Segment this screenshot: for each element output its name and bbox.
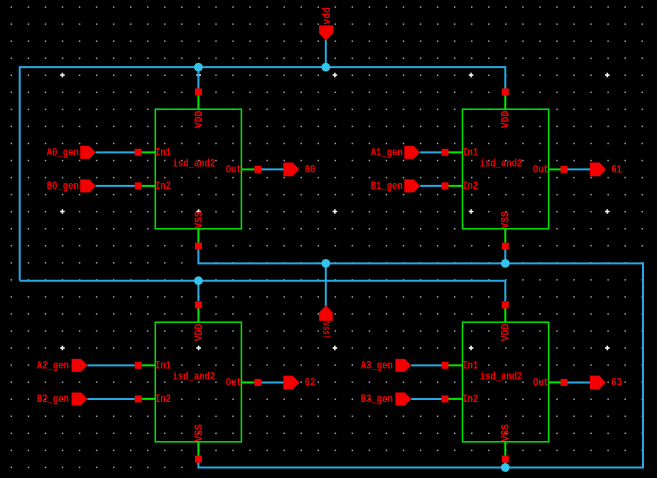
wire U3 Out to 62: [261, 382, 283, 384]
U3 pin In2: [135, 395, 142, 402]
U1 pin In2: [135, 182, 142, 189]
op-amp U4 isd_and2 instance body: [449, 308, 561, 455]
svg-text:60: 60: [305, 164, 316, 176]
wire A3_gen to U4 In1: [411, 364, 442, 366]
U1 pin VSS: [195, 243, 202, 250]
svg-text:isd_and2: isd_and2: [480, 371, 523, 383]
wire vss loop: [198, 249, 643, 467]
U4 pin In1: [442, 362, 449, 369]
svg-text:B0_gen: B0_gen: [47, 181, 79, 193]
wire A1_gen to U2 In1: [420, 151, 442, 153]
op-amp U3 isd_and2 instance body: [142, 308, 255, 455]
svg-text:In1: In1: [155, 148, 171, 160]
wire vdd top loop: [20, 67, 506, 281]
vss pentagon: [319, 306, 333, 321]
wire U1 Out to 60: [261, 168, 283, 170]
svg-text:In2: In2: [155, 394, 171, 406]
port B0_gen: [47, 179, 96, 193]
junction vdd top left: [194, 63, 203, 72]
U2 pin VSS: [502, 243, 509, 250]
svg-text:vdd: vdd: [322, 7, 334, 25]
svg-text:A0_gen: A0_gen: [47, 147, 79, 159]
svg-text:VSS: VSS: [194, 424, 206, 442]
wire vdd lower horizontal: [20, 281, 506, 302]
svg-text:In2: In2: [462, 181, 478, 193]
svg-text:In1: In1: [462, 361, 478, 373]
U4 pin VDD: [502, 301, 509, 308]
wire B3_gen to U4 In2: [411, 398, 442, 400]
junction vdd lower left: [194, 276, 203, 285]
svg-text:A2_gen: A2_gen: [37, 360, 69, 372]
power vdd supply symbol: [319, 7, 334, 41]
U3 pin VDD: [195, 301, 202, 308]
svg-text:In1: In1: [462, 148, 478, 160]
U4 pin VSS: [502, 456, 509, 463]
U1 pin VDD: [195, 88, 202, 95]
port 62: [283, 376, 315, 390]
port B1_gen: [371, 179, 420, 193]
U2 pin In2: [442, 182, 449, 189]
svg-text:62: 62: [305, 378, 316, 390]
svg-text:Out: Out: [226, 378, 242, 390]
svg-text:VDD: VDD: [501, 323, 513, 341]
ground vss supply symbol: [319, 306, 333, 339]
svg-text:VDD: VDD: [194, 110, 206, 128]
wire B0_gen to U1 In2: [96, 185, 135, 187]
port B2_gen: [37, 393, 88, 407]
wire U2 Out to 61: [567, 168, 590, 170]
svg-text:B3_gen: B3_gen: [361, 394, 393, 406]
wire B2_gen to U3 In2: [87, 398, 134, 400]
wire vss from U2: [504, 249, 506, 263]
svg-text:VSS: VSS: [194, 211, 206, 229]
U4 pin Out: [561, 379, 568, 386]
junction vss supply: [321, 259, 330, 268]
svg-text:A3_gen: A3_gen: [361, 360, 393, 372]
U3 pin Out: [254, 379, 261, 386]
wire vdd drop to U1: [197, 67, 199, 89]
svg-text:VDD: VDD: [194, 323, 206, 341]
svg-text:VSS: VSS: [501, 211, 513, 229]
wire A2_gen to U3 In1: [87, 364, 134, 366]
wire vss symbol stem: [325, 263, 327, 306]
svg-text:Out: Out: [533, 378, 549, 390]
svg-text:Out: Out: [226, 165, 242, 177]
svg-text:61: 61: [611, 164, 622, 176]
vdd pentagon: [319, 25, 333, 40]
port A3_gen: [361, 359, 411, 373]
junction vss bottom right: [501, 463, 510, 472]
svg-text:B1_gen: B1_gen: [371, 181, 403, 193]
op-amp U2 isd_and2 instance body: [449, 95, 561, 242]
wire A0_gen to U1 In1: [96, 151, 135, 153]
port 60: [283, 163, 315, 177]
svg-text:In2: In2: [462, 394, 478, 406]
U1 pin Out: [254, 166, 261, 173]
wire U4 Out to 63: [567, 382, 590, 384]
wire vss from U4: [504, 463, 506, 468]
wire vdd symbol stem: [325, 40, 327, 67]
svg-text:In1: In1: [155, 361, 171, 373]
U3 pin VSS: [195, 456, 202, 463]
op-amp U1 isd_and2 instance body: [142, 95, 255, 242]
port A1_gen: [371, 146, 420, 159]
svg-text:isd_and2: isd_and2: [480, 158, 523, 170]
U2 pin In1: [442, 149, 449, 156]
svg-text:In2: In2: [155, 181, 171, 193]
port A2_gen: [37, 359, 88, 373]
svg-text:isd_and2: isd_and2: [173, 371, 216, 383]
svg-text:Out: Out: [533, 165, 549, 177]
port 63: [590, 376, 622, 390]
junction vss top right: [501, 259, 510, 268]
port B3_gen: [361, 393, 411, 407]
svg-text:VDD: VDD: [501, 110, 513, 128]
junction vdd supply: [321, 63, 330, 72]
U3 pin In1: [135, 362, 142, 369]
port A0_gen: [47, 146, 96, 159]
svg-text:63: 63: [611, 378, 622, 390]
svg-text:vss!: vss!: [319, 322, 331, 339]
wire B1_gen to U2 In2: [420, 185, 442, 187]
svg-text:VSS: VSS: [501, 424, 513, 442]
svg-text:B2_gen: B2_gen: [37, 394, 69, 406]
U2 pin VDD: [502, 88, 509, 95]
U1 pin In1: [135, 149, 142, 156]
wire vdd drop to U3: [197, 281, 199, 302]
svg-text:isd_and2: isd_and2: [173, 158, 216, 170]
U2 pin Out: [561, 166, 568, 173]
svg-text:A1_gen: A1_gen: [371, 147, 403, 159]
U4 pin In2: [442, 395, 449, 402]
port 61: [590, 163, 622, 177]
